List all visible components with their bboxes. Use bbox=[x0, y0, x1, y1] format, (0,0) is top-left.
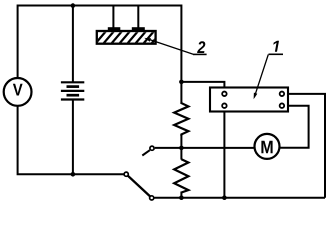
wire: battery top lead bbox=[72, 6, 74, 84]
junction: resistor R2 on bottom bus bbox=[179, 195, 184, 200]
wire: component 1 bottom-left terminal to bottom bus bbox=[223, 109, 225, 198]
label 2 leader line with arrow bbox=[144, 38, 193, 54]
switch SA: pole contact circle bbox=[124, 172, 128, 176]
wire: right vertical between resistors R1 and R2 bbox=[180, 135, 182, 160]
wire: voltmeter down to bottom-left corner and bus to switch pole bbox=[18, 106, 124, 175]
component 2: hatched element body bbox=[95, 30, 163, 44]
resistor R2 bbox=[174, 159, 188, 192]
resistor R1 bbox=[174, 103, 188, 136]
wire: element 2 left lead bbox=[112, 6, 114, 29]
voltmeter PV bbox=[4, 78, 32, 106]
label 2 text bbox=[197, 41, 205, 53]
wire: top bus with left and right verticals bbox=[18, 6, 182, 103]
junction: battery lead on lower-left bus bbox=[71, 172, 76, 177]
junction: component 1 lead on bottom bus bbox=[222, 195, 227, 200]
switch SA: upper throw contact circle bbox=[150, 146, 154, 150]
wire: component 1 bottom-right terminal to motor bbox=[280, 106, 308, 148]
wire: element 2 right lead bbox=[137, 6, 139, 29]
label 1 text bbox=[273, 41, 279, 52]
component 2: right terminal tab bbox=[132, 27, 145, 31]
wire: resistor R2 bottom lead bbox=[180, 192, 182, 198]
component 1: terminal top-left bbox=[222, 92, 227, 97]
wire: component 1 top-right terminal to right-side bus bbox=[285, 94, 325, 198]
wire: node A to component 1 top-left terminal bbox=[181, 82, 224, 91]
junction: node B (right vertical and motor wire) bbox=[179, 146, 184, 151]
component 1: terminal top-right bbox=[280, 92, 285, 97]
junction: top bus and battery bbox=[71, 3, 76, 8]
switch SA: lower throw contact circle bbox=[150, 196, 154, 200]
switch SA: blade from pole to lower contact bbox=[126, 174, 152, 198]
label 1 underline bbox=[269, 53, 284, 55]
component 1: terminal bottom-left bbox=[222, 103, 227, 108]
motor M bbox=[255, 134, 280, 159]
wire: battery bottom lead bbox=[72, 99, 74, 175]
junction: node A (right vertical to component 1) bbox=[179, 80, 184, 85]
component 1: body bbox=[210, 88, 288, 112]
battery GB bbox=[61, 82, 84, 99]
switch SA: stub at upper contact bbox=[142, 150, 150, 155]
label 2 underline bbox=[193, 53, 207, 55]
component 1: terminal bottom-right bbox=[280, 103, 285, 108]
wire: bottom bus bbox=[155, 197, 326, 199]
label 1 leader line with arrow bbox=[254, 55, 269, 100]
wire: switch upper contact to motor (through node B) bbox=[155, 147, 254, 149]
component 2: left terminal tab bbox=[108, 27, 121, 31]
